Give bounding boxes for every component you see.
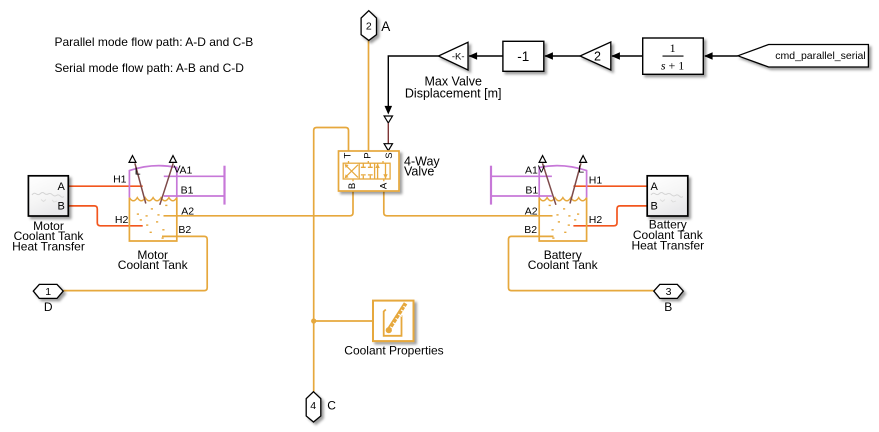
wire: valve B down-left to Motor tank A2	[164, 191, 354, 216]
wire: Motor tank B2 to port1 D	[63, 236, 207, 290]
svg-text:A1: A1	[525, 165, 538, 177]
svg-text:4: 4	[310, 400, 316, 412]
svg-text:A2: A2	[181, 205, 194, 217]
svg-text:A: A	[381, 19, 390, 34]
wire: Motor HT B to tank H2	[68, 206, 142, 226]
wire: -1 to Gain -K-	[469, 55, 503, 57]
node: motor thermal T-bar	[223, 166, 225, 205]
svg-text:H1: H1	[113, 173, 127, 185]
svg-text:A: A	[57, 181, 65, 193]
port 1 (D)	[33, 284, 63, 298]
wire: Battery tank A1	[491, 175, 552, 177]
svg-text:B2: B2	[524, 224, 537, 236]
wire: Battery tank H1 to HT A	[573, 185, 647, 187]
wire: Battery tank B1	[491, 195, 552, 197]
svg-text:A1: A1	[180, 165, 193, 177]
node: battery thermal T-bar	[490, 166, 492, 205]
wire: tag to Transfer Fcn	[705, 55, 738, 57]
liquid dots	[137, 205, 168, 239]
wire: Motor HT A to tank H1 (thermal red)	[68, 185, 142, 187]
Motor Coolant Tank Heat Transfer block	[28, 176, 68, 216]
port 2 (A)	[361, 11, 376, 41]
wire: valve T up-left-down to port4, junction at Coolant Properties	[314, 128, 349, 392]
tag cmd_parallel_serial	[738, 45, 869, 68]
svg-text:Serial mode flow path: A-B and: Serial mode flow path: A-B and C-D	[55, 61, 245, 75]
gain block 2	[580, 42, 611, 70]
svg-text:T: T	[342, 153, 353, 159]
sensor triangle right	[170, 156, 177, 163]
svg-text:-1: -1	[517, 49, 529, 64]
wire: Battery tank H2 to HT B	[573, 206, 647, 226]
svg-text:B2: B2	[178, 224, 191, 236]
svg-text:Heat Transfer: Heat Transfer	[12, 240, 85, 254]
svg-text:Valve: Valve	[404, 165, 434, 179]
beaker	[384, 310, 402, 336]
svg-text:B: B	[347, 183, 358, 189]
svg-text:L: L	[135, 165, 141, 177]
sensor triangle left	[539, 156, 546, 163]
svg-text:Coolant Properties: Coolant Properties	[344, 344, 443, 358]
level sensor L diagonal	[135, 163, 146, 203]
svg-text:B: B	[57, 201, 64, 213]
svg-text:H2: H2	[115, 214, 129, 226]
svg-text:cmd_parallel_serial: cmd_parallel_serial	[775, 50, 865, 62]
gain block -K- (Max Valve Displacement)	[438, 42, 468, 70]
wire: Motor tank A1 (purple)	[164, 175, 225, 177]
gain block -1	[503, 41, 544, 71]
orange tank walls	[539, 198, 586, 241]
svg-text:B1: B1	[525, 184, 538, 196]
svg-text:Displacement [m]: Displacement [m]	[405, 87, 502, 101]
svg-text:H1: H1	[589, 175, 603, 187]
sensor triangle left	[129, 156, 136, 163]
Battery Coolant Tank Heat Transfer block	[647, 176, 688, 216]
svg-text:B: B	[664, 300, 672, 314]
svg-text:A2: A2	[525, 205, 538, 217]
svg-text:2: 2	[366, 21, 372, 33]
svg-text:Parallel mode flow path: A-D a: Parallel mode flow path: A-D and C-B	[55, 35, 254, 49]
svg-text:A: A	[651, 181, 659, 193]
svg-text:3: 3	[666, 286, 672, 298]
svg-text:V: V	[538, 164, 545, 176]
PS converter triangle bottom	[384, 144, 392, 151]
svg-text:C: C	[327, 398, 336, 412]
wire: Gain2 to -1	[545, 55, 580, 57]
svg-text:P: P	[363, 152, 374, 158]
node junction on T wire	[311, 318, 316, 323]
svg-text:2: 2	[594, 50, 601, 64]
port 3 (B)	[654, 284, 684, 298]
wire: Battery tank B2 to port3 B	[509, 236, 654, 290]
wire: valve A down-right to Battery tank A2	[384, 191, 553, 216]
Coolant Properties block	[373, 301, 414, 342]
svg-text:s + 1: s + 1	[661, 58, 684, 72]
svg-text:S: S	[384, 152, 395, 158]
wavy liquid top	[539, 198, 586, 201]
Battery Coolant Tank	[524, 156, 602, 273]
svg-text:1: 1	[45, 286, 51, 298]
4-way valve block	[339, 151, 400, 191]
purple dome	[539, 166, 586, 198]
sensor triangle right	[580, 156, 587, 163]
wire: Transfer Fcn to Gain2	[612, 55, 643, 57]
wire: port2 A to valve P (orange)	[368, 40, 370, 151]
svg-text:-K-: -K-	[452, 52, 465, 63]
wavy liquid top	[129, 198, 176, 201]
svg-text:Coolant Tank: Coolant Tank	[528, 258, 599, 272]
svg-text:1: 1	[670, 41, 676, 55]
transfer function block U: 1/(s+1)	[643, 38, 704, 74]
PS converter triangle top	[384, 116, 392, 123]
orange tank walls	[129, 198, 176, 241]
wire: junction to Coolant Properties	[314, 320, 373, 322]
purple dome	[129, 166, 176, 198]
valve inner icon	[343, 161, 390, 181]
Motor Coolant Tank	[113, 156, 194, 273]
svg-text:Coolant Tank: Coolant Tank	[118, 258, 189, 272]
port 4 (C)	[306, 392, 321, 422]
svg-text:D: D	[44, 300, 53, 314]
svg-text:B1: B1	[181, 184, 194, 196]
svg-text:Heat Transfer: Heat Transfer	[631, 239, 704, 253]
svg-text:L: L	[578, 164, 584, 176]
volume sensor V diagonal	[543, 163, 556, 205]
svg-text:A: A	[378, 182, 389, 189]
physical signal line	[387, 123, 389, 144]
faint squiggle inside HT block	[32, 193, 64, 198]
level sensor L diagonal	[570, 163, 581, 203]
svg-text:B: B	[651, 201, 658, 213]
thermometer	[388, 303, 406, 331]
wire: Gain -K- down to converter	[388, 56, 438, 107]
liquid dots	[549, 205, 580, 239]
wire: Motor tank B1	[164, 195, 225, 197]
svg-text:H2: H2	[589, 214, 603, 226]
volume sensor V diagonal	[160, 163, 173, 205]
